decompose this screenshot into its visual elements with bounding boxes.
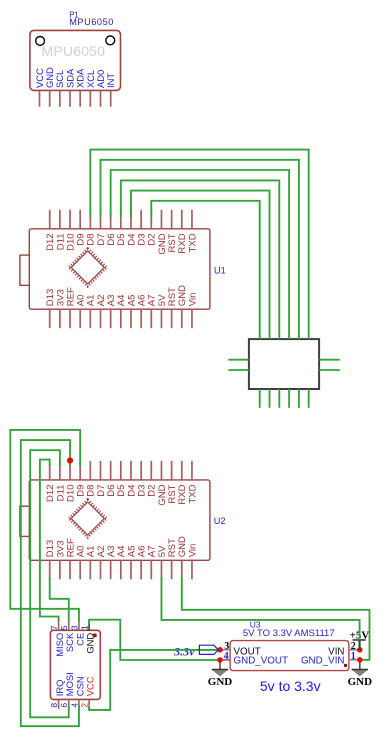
- svg-text:5V TO 3.3V AMS1117: 5V TO 3.3V AMS1117: [243, 628, 335, 639]
- svg-text:TXD: TXD: [187, 233, 198, 252]
- svg-text:U2: U2: [214, 516, 226, 526]
- svg-text:3.3v: 3.3v: [173, 645, 195, 659]
- svg-text:6: 6: [59, 703, 69, 708]
- svg-text:4: 4: [224, 651, 229, 662]
- svg-text:MPU6050: MPU6050: [42, 43, 106, 59]
- svg-text:GND: GND: [348, 676, 373, 688]
- svg-text:MPU6050: MPU6050: [69, 17, 114, 27]
- svg-text:Vin: Vin: [187, 293, 198, 307]
- svg-text:3: 3: [69, 625, 79, 630]
- svg-text:GND: GND: [208, 676, 233, 688]
- svg-text:Vin: Vin: [187, 544, 198, 558]
- svg-text:INT: INT: [105, 73, 116, 88]
- svg-text:5: 5: [59, 625, 69, 630]
- svg-text:TXD: TXD: [187, 484, 198, 503]
- svg-text:4: 4: [69, 703, 79, 708]
- svg-text:VCC: VCC: [84, 676, 95, 696]
- svg-text:U1: U1: [214, 266, 226, 276]
- svg-text:GND_VIN: GND_VIN: [301, 656, 345, 667]
- svg-text:1: 1: [79, 625, 89, 630]
- svg-text:5v to 3.3v: 5v to 3.3v: [260, 678, 321, 694]
- svg-text:8: 8: [49, 703, 59, 708]
- svg-text:7: 7: [49, 625, 59, 630]
- svg-text:1: 1: [351, 651, 356, 662]
- svg-text:2: 2: [79, 703, 89, 708]
- svg-text:GND_VOUT: GND_VOUT: [234, 656, 288, 667]
